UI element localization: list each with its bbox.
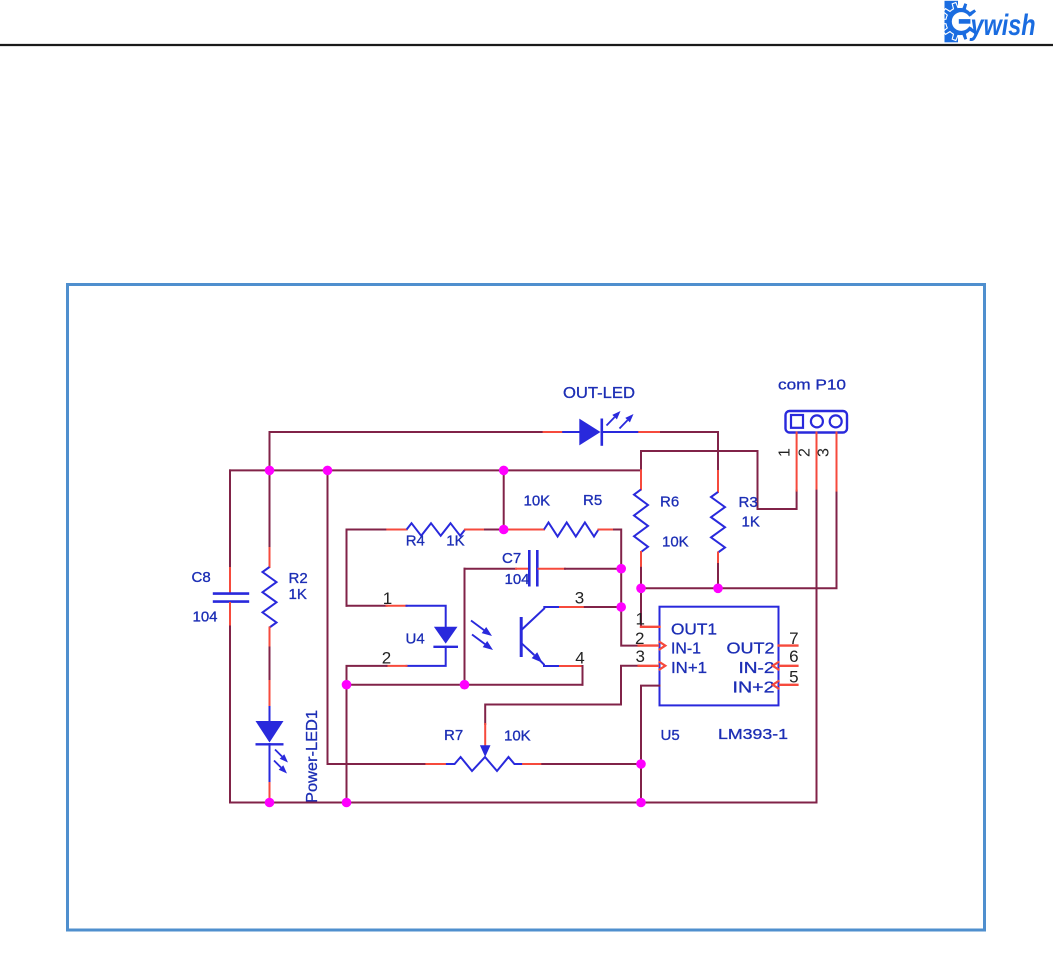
wire R7 right to U5 column bbox=[542, 763, 641, 765]
wire C7 right lead wire bbox=[565, 568, 621, 570]
label U5 OUT2 bbox=[727, 641, 775, 658]
svg-text:10K: 10K bbox=[524, 493, 551, 510]
label U4 pin 3 bbox=[575, 589, 584, 608]
label R2 bbox=[289, 570, 308, 587]
svg-text:1: 1 bbox=[777, 448, 794, 457]
svg-text:IN-2: IN-2 bbox=[739, 660, 775, 677]
label U5 part LM393-1 bbox=[718, 726, 788, 743]
connector P10 body bbox=[786, 411, 848, 433]
wire U4 pin2 wire bbox=[347, 666, 387, 685]
wire R4 left lead wire bbox=[347, 530, 388, 606]
logo Cywish gear icon bbox=[941, 1, 987, 43]
svg-text:2: 2 bbox=[635, 629, 644, 648]
svg-text:3: 3 bbox=[635, 647, 644, 666]
label OUT-LED bbox=[563, 385, 635, 402]
op-amp U5 pin 2 lead bbox=[639, 641, 666, 650]
wire U4 pin1 wire bbox=[347, 605, 387, 607]
svg-text:104: 104 bbox=[505, 571, 530, 588]
svg-text:1K: 1K bbox=[742, 514, 760, 531]
svg-text:R5: R5 bbox=[583, 492, 602, 509]
label R7 bbox=[444, 727, 463, 744]
label U5 OUT1 bbox=[671, 622, 717, 639]
label R7 value 10K bbox=[504, 728, 531, 745]
svg-text:IN+2: IN+2 bbox=[733, 680, 775, 697]
connector P10 pin 1 lead bbox=[796, 433, 798, 491]
svg-text:Power-LED1: Power-LED1 bbox=[304, 710, 321, 803]
svg-text:R4: R4 bbox=[406, 533, 425, 550]
svg-text:C8: C8 bbox=[192, 569, 211, 586]
label P10 pin 2 bbox=[797, 448, 814, 457]
schematic frame bbox=[68, 285, 985, 931]
wire U4 pin2 column down bbox=[346, 685, 348, 803]
svg-text:1K: 1K bbox=[289, 586, 307, 603]
svg-text:R6: R6 bbox=[660, 494, 679, 511]
label U4 bbox=[406, 631, 425, 648]
wire comparator output net bbox=[641, 491, 837, 589]
wire R3 bottom to net bbox=[717, 564, 719, 588]
potentiometer R7 bbox=[426, 724, 542, 771]
svg-text:2: 2 bbox=[382, 649, 391, 668]
wire VCC rail bbox=[230, 469, 641, 471]
LED OUT-LED bbox=[544, 411, 659, 446]
op-amp U5 pin 3 lead bbox=[639, 662, 666, 671]
wire C8 bottom lead bbox=[229, 627, 231, 803]
label C7 value 104 bbox=[505, 571, 530, 588]
wire C7 left lead wire bbox=[465, 568, 517, 570]
svg-text:U5: U5 bbox=[661, 727, 680, 744]
wire ground rail bbox=[230, 802, 817, 804]
op-amp U5 body bbox=[660, 607, 779, 706]
connector P10 pin 3 lead bbox=[836, 433, 838, 491]
wire R6 bottom to node bbox=[640, 568, 642, 589]
resistor R6 bbox=[634, 470, 648, 567]
wire R2 to Power-LED1 bbox=[269, 648, 271, 682]
wire U5 pin1 riser bbox=[641, 588, 644, 627]
header rule bbox=[0, 44, 1053, 46]
wire U4 bottom rail bbox=[347, 684, 583, 686]
svg-text:OUT1: OUT1 bbox=[671, 622, 717, 639]
svg-text:OUT2: OUT2 bbox=[727, 641, 775, 658]
optocoupler U4 LED side bbox=[387, 606, 459, 666]
label R2 value 1K bbox=[289, 586, 307, 603]
svg-text:1: 1 bbox=[635, 610, 644, 629]
label U4 pin 2 bbox=[382, 649, 391, 668]
logo Cywish wordmark bbox=[969, 9, 1036, 42]
svg-text:10K: 10K bbox=[504, 728, 531, 745]
svg-text:R7: R7 bbox=[444, 727, 463, 744]
label U5 IN-1 bbox=[671, 641, 701, 658]
wire R5 right to C7 column bbox=[614, 530, 621, 569]
wire R2 top lead bbox=[269, 470, 271, 548]
label U5 IN-2 bbox=[739, 660, 775, 677]
label R3 bbox=[739, 494, 758, 511]
label R3 value 1K bbox=[742, 514, 760, 531]
resistor R5 bbox=[504, 523, 614, 537]
label U5 pin 7 bbox=[789, 629, 798, 648]
label U5 pin 1 bbox=[635, 610, 644, 629]
label Power-LED1 bbox=[304, 710, 321, 803]
capacitor C7 bbox=[516, 550, 565, 587]
svg-text:ywish: ywish bbox=[969, 9, 1036, 42]
wire R4 to node bbox=[485, 529, 504, 531]
svg-text:1K: 1K bbox=[446, 533, 464, 550]
label C7 bbox=[502, 550, 521, 567]
svg-text:7: 7 bbox=[789, 629, 798, 648]
svg-text:LM393-1: LM393-1 bbox=[718, 726, 788, 743]
label R6 value 10K bbox=[662, 534, 689, 551]
label U5 bbox=[661, 727, 680, 744]
label U5 IN+1 bbox=[671, 660, 707, 677]
svg-text:3: 3 bbox=[816, 448, 833, 457]
svg-text:IN-1: IN-1 bbox=[671, 641, 701, 658]
label R4 value 1K bbox=[446, 533, 464, 550]
wire IN+1 to R7 wiper bbox=[485, 666, 639, 724]
op-amp U5 pin 6 lead bbox=[773, 662, 798, 671]
svg-text:104: 104 bbox=[193, 609, 218, 626]
label U4 pin 4 bbox=[575, 649, 584, 668]
wire net to R7 left bbox=[328, 470, 427, 764]
label R6 bbox=[660, 494, 679, 511]
wire OUT-LED cathode to R3 top bbox=[659, 432, 718, 471]
resistor R3 bbox=[711, 471, 725, 564]
label R5 value 10K bbox=[524, 493, 551, 510]
resistor R4 bbox=[387, 523, 485, 536]
label U4 pin 1 bbox=[383, 589, 392, 608]
capacitor C8 bbox=[213, 568, 249, 627]
optocoupler U4 phototransistor bbox=[521, 607, 585, 666]
label U5 pin 2 bbox=[635, 629, 644, 648]
label P10 pin 3 bbox=[816, 448, 833, 457]
junction dots bbox=[265, 466, 723, 808]
svg-text:5: 5 bbox=[789, 668, 798, 687]
connector P10 pin 2 lead bbox=[816, 433, 818, 491]
label com P10 bbox=[778, 377, 846, 394]
svg-text:2: 2 bbox=[797, 448, 814, 457]
svg-text:R3: R3 bbox=[739, 494, 758, 511]
wire P10 pin2 to ground rail bbox=[816, 491, 818, 803]
svg-text:C7: C7 bbox=[502, 550, 521, 567]
label R4 bbox=[406, 533, 425, 550]
svg-text:OUT-LED: OUT-LED bbox=[563, 385, 635, 402]
svg-text:IN+1: IN+1 bbox=[671, 660, 707, 677]
wire VCC riser to OUT-LED rail bbox=[270, 432, 544, 470]
label R5 bbox=[583, 492, 602, 509]
wire C8 top lead bbox=[229, 470, 231, 568]
label U5 IN+2 bbox=[733, 680, 775, 697]
svg-text:4: 4 bbox=[575, 649, 584, 668]
op-amp U5 pin 5 lead bbox=[773, 681, 798, 690]
wire U5 column to ground rail bbox=[640, 764, 642, 803]
label P10 pin 1 bbox=[777, 448, 794, 457]
wire U4 pin4 down bbox=[582, 666, 584, 685]
svg-text:com P10: com P10 bbox=[778, 377, 846, 394]
label U5 pin 3 bbox=[635, 647, 644, 666]
wire U5 ground stub bbox=[641, 686, 660, 764]
svg-text:U4: U4 bbox=[406, 631, 425, 648]
wire VCC riser to R4-R5 node bbox=[503, 470, 505, 529]
label C8 bbox=[192, 569, 211, 586]
svg-text:10K: 10K bbox=[662, 534, 689, 551]
label U5 pin 6 bbox=[789, 647, 798, 666]
svg-text:6: 6 bbox=[789, 647, 798, 666]
op-amp U5 pin 7 lead bbox=[779, 644, 798, 646]
wire C7 node to IN-1 bbox=[621, 569, 639, 646]
LED Power-LED1 bbox=[256, 681, 289, 803]
resistor R2 bbox=[263, 548, 277, 648]
wire U4 pin3 to node bbox=[585, 606, 621, 608]
label C8 value 104 bbox=[193, 609, 218, 626]
optocoupler U4 light arrows bbox=[471, 621, 493, 651]
svg-text:R2: R2 bbox=[289, 570, 308, 587]
op-amp U5 pin 1 lead bbox=[641, 626, 660, 628]
wire C7 column down bbox=[464, 569, 466, 685]
wire R6 top wire bbox=[641, 451, 797, 509]
label U5 pin 5 bbox=[789, 668, 798, 687]
svg-text:3: 3 bbox=[575, 589, 584, 608]
